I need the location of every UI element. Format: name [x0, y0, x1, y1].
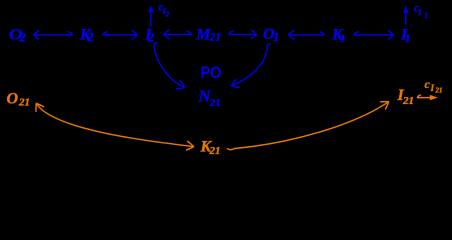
- node I21: [397, 87, 415, 107]
- label c_I1: [414, 3, 428, 21]
- node I1: [400, 26, 411, 45]
- wire K2 to O2 arrow: [34, 31, 73, 39]
- svg-text:1: 1: [424, 11, 428, 20]
- svg-text:2: 2: [86, 30, 93, 44]
- wire M21 to O1 arrow: [229, 30, 257, 38]
- svg-text:1: 1: [340, 31, 346, 45]
- svg-text:21: 21: [18, 96, 30, 108]
- arc K21 to I21: [228, 102, 389, 150]
- node K1: [331, 26, 346, 45]
- svg-text:PO: PO: [201, 64, 222, 82]
- arrow I21 right to concentration: [418, 95, 438, 100]
- svg-text:2: 2: [19, 30, 26, 44]
- node O1: [263, 26, 279, 44]
- node M21: [195, 26, 221, 43]
- node N21: [197, 87, 221, 110]
- label c_I21: [425, 77, 443, 94]
- wire K1 to O1 arrow: [289, 31, 325, 39]
- svg-text:21: 21: [402, 95, 414, 107]
- arrow I1 up to concentration: [403, 6, 408, 25]
- arc K21 to O21 double-headed: [36, 104, 193, 147]
- svg-text:21: 21: [209, 31, 222, 43]
- wire K1 to I1 arrow: [354, 31, 393, 39]
- svg-text:21: 21: [435, 86, 443, 94]
- svg-text:1: 1: [405, 31, 411, 45]
- svg-text:I: I: [417, 7, 422, 17]
- svg-text:1: 1: [273, 30, 279, 44]
- label c_I2: [159, 2, 170, 19]
- svg-text:21: 21: [209, 97, 221, 109]
- arc I2 to N21: [154, 43, 185, 88]
- arrow I2 up to concentration: [148, 5, 153, 26]
- svg-text:21: 21: [209, 145, 221, 157]
- svg-text:2: 2: [147, 31, 154, 45]
- svg-text:I: I: [430, 83, 435, 93]
- wire K2 to I2 arrow: [103, 31, 137, 39]
- wire M21 to I2 arrow: [164, 30, 191, 38]
- node K21: [200, 138, 221, 157]
- arc O1 to N21: [232, 44, 271, 86]
- node O21: [7, 90, 31, 108]
- svg-text:O: O: [7, 90, 19, 107]
- svg-text:2: 2: [165, 11, 170, 19]
- node O2: [9, 26, 26, 44]
- node K2: [79, 26, 94, 44]
- node I2: [144, 26, 154, 44]
